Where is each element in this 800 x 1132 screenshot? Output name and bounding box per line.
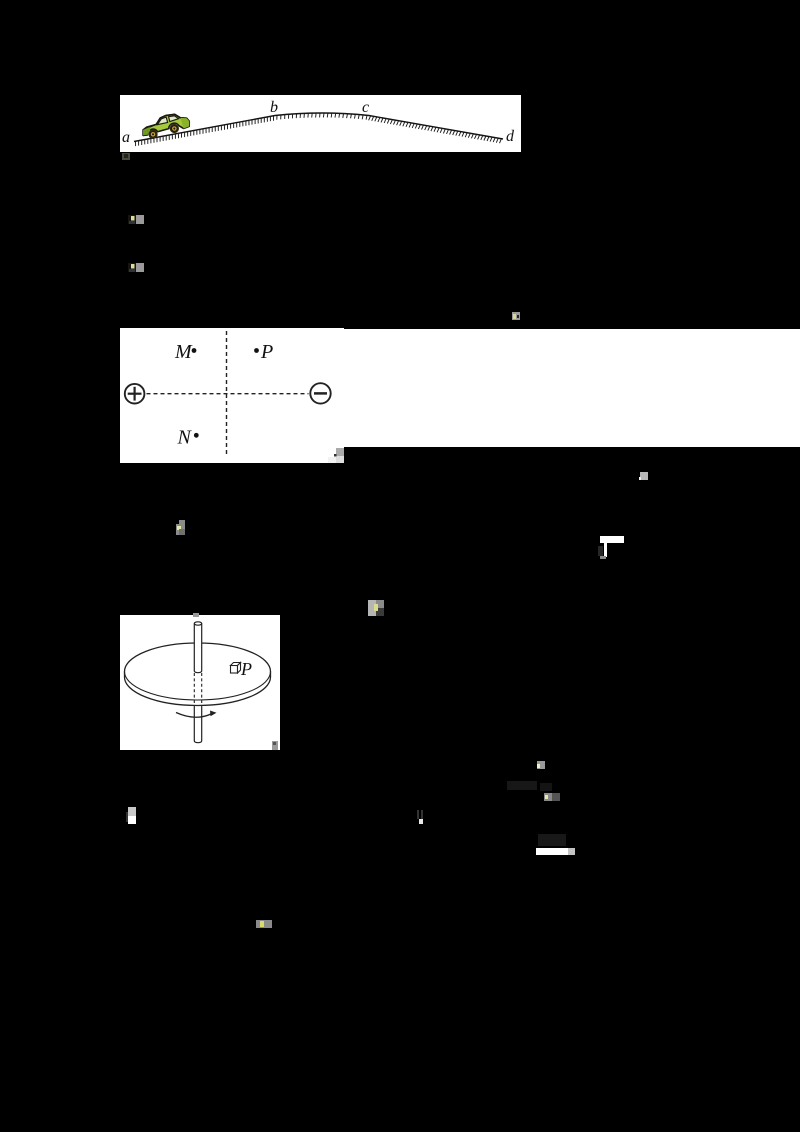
svg-text:d: d bbox=[506, 128, 515, 145]
svg-text:c: c bbox=[362, 99, 369, 116]
svg-text:b: b bbox=[270, 99, 278, 116]
svg-text:P: P bbox=[240, 659, 252, 679]
svg-text:N: N bbox=[177, 427, 193, 449]
svg-text:P: P bbox=[260, 341, 273, 363]
svg-text:a: a bbox=[122, 129, 130, 146]
svg-text:M: M bbox=[174, 341, 193, 363]
